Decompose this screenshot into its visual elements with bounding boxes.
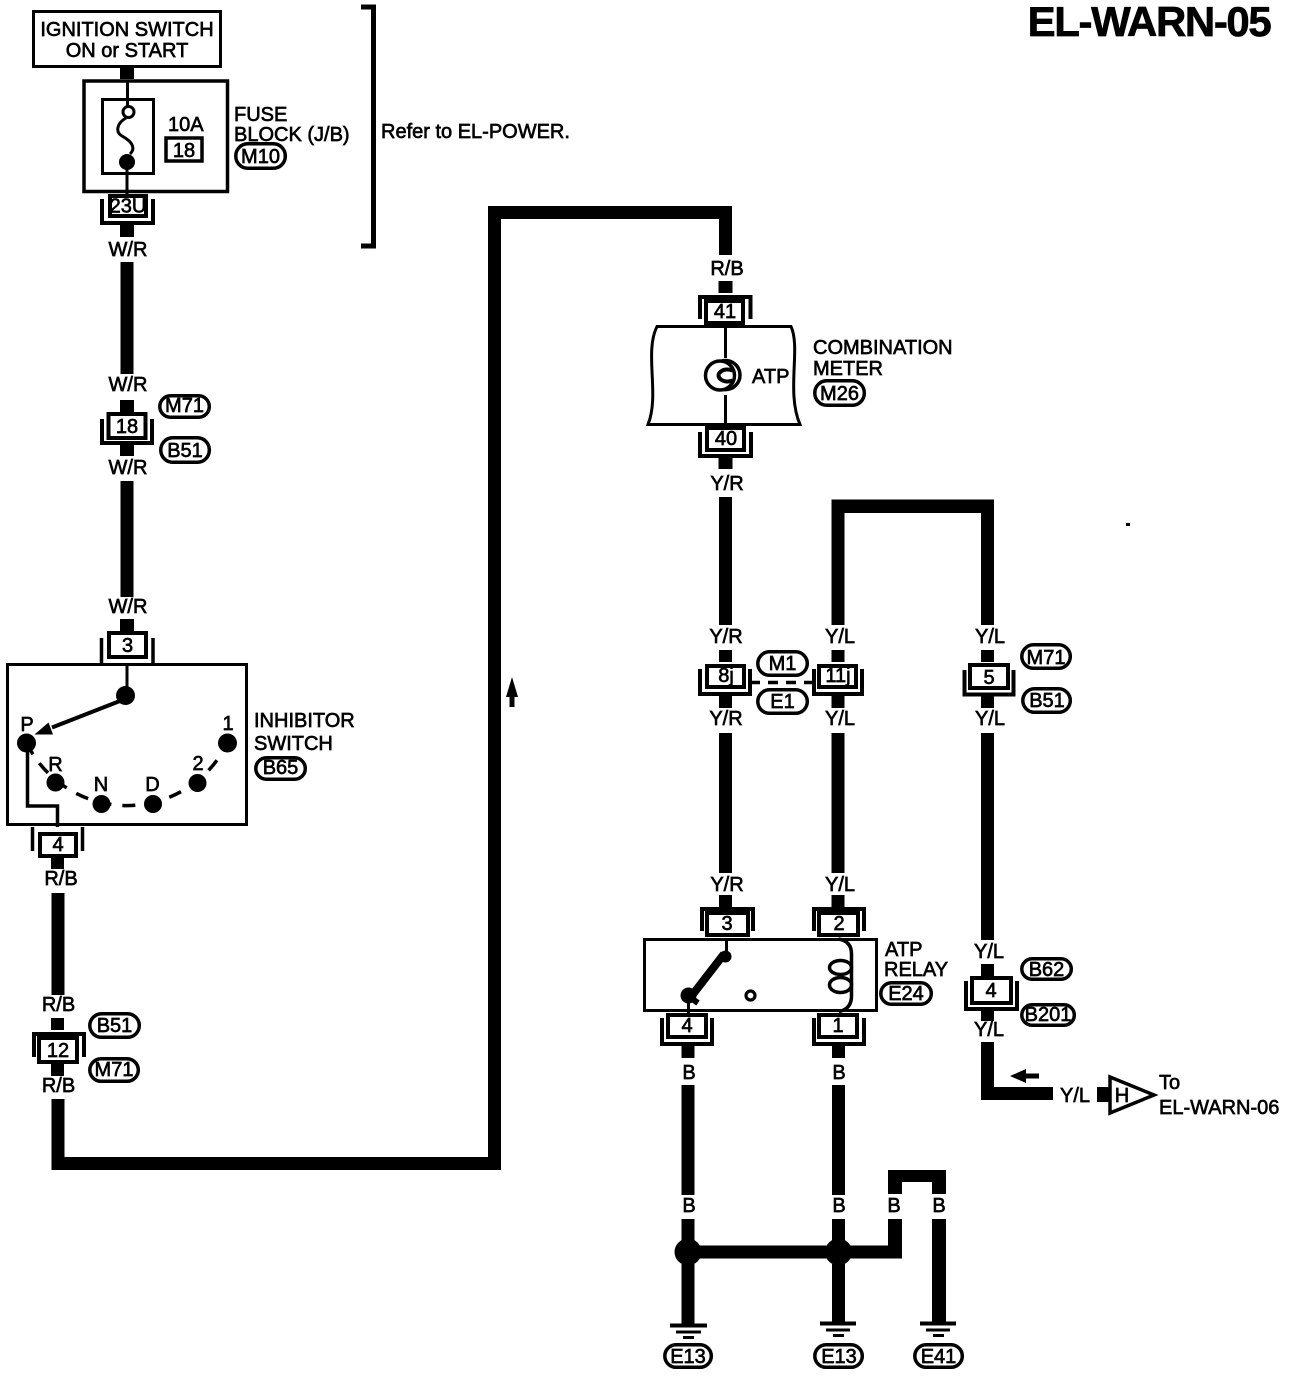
- svg-text:8j: 8j: [718, 665, 734, 687]
- svg-text:SWITCH: SWITCH: [254, 733, 333, 755]
- wire B to junction: [832, 1219, 845, 1246]
- svg-text:B: B: [932, 1195, 945, 1217]
- svg-text:FUSE: FUSE: [234, 104, 287, 126]
- svg-text:R: R: [48, 754, 62, 776]
- ATP relay box: [645, 940, 877, 1011]
- svg-text:B: B: [682, 1195, 695, 1217]
- svg-text:18: 18: [173, 140, 195, 162]
- connector label M1: [758, 652, 808, 676]
- connector 41 combination meter: [700, 281, 751, 323]
- svg-text:B51: B51: [97, 1015, 133, 1037]
- wire stub ignition to fuse block: [120, 68, 134, 79]
- wire B vertical: [682, 1085, 695, 1195]
- svg-text:B: B: [887, 1195, 900, 1217]
- svg-text:4: 4: [52, 834, 63, 856]
- connector 3 ATP relay: [702, 895, 753, 935]
- svg-text:Y/R: Y/R: [710, 473, 743, 495]
- svg-text:M71: M71: [1027, 647, 1066, 669]
- wire Y/L down corner to EL-WARN-06: [981, 1042, 994, 1100]
- connector 1 ATP relay: [814, 1015, 864, 1058]
- svg-text:Y/R: Y/R: [709, 626, 742, 648]
- connector 40 combination meter: [700, 428, 751, 469]
- junction node: [825, 1239, 852, 1266]
- wire Y/L vertical: [981, 733, 994, 940]
- wire direction arrow left: [1010, 1069, 1039, 1083]
- svg-text:Y/L: Y/L: [825, 626, 855, 648]
- svg-text:40: 40: [715, 428, 737, 450]
- svg-text:3: 3: [721, 913, 732, 935]
- svg-text:Y/L: Y/L: [974, 1019, 1004, 1041]
- combination meter labels M26: [813, 337, 953, 405]
- ground E13: [665, 1326, 712, 1369]
- svg-text:W/R: W/R: [109, 457, 148, 479]
- connector label B201: [1022, 1004, 1075, 1026]
- svg-text:METER: METER: [813, 358, 883, 380]
- svg-text:B: B: [832, 1195, 845, 1217]
- fuse block labels FUSE BLOCK (J/B) M10: [234, 104, 350, 168]
- svg-text:Y/R: Y/R: [710, 874, 743, 896]
- wire R/B down from connector 12: [52, 1099, 65, 1170]
- wire bridge over: [888, 1170, 946, 1194]
- Y/L top bar: [832, 500, 995, 514]
- wire bridge left leg lower: [888, 1219, 902, 1259]
- svg-text:R/B: R/B: [44, 868, 77, 890]
- svg-text:IGNITION SWITCH: IGNITION SWITCH: [40, 19, 213, 41]
- fuse 10A 18 symbol: [118, 81, 204, 194]
- svg-text:ATP: ATP: [885, 939, 922, 961]
- relay labels ATP RELAY E24: [881, 939, 948, 1005]
- svg-text:ON or START: ON or START: [66, 40, 189, 62]
- svg-text:E41: E41: [921, 1346, 957, 1368]
- wire R/B vertical: [52, 893, 65, 995]
- connector 5 M71/B51: [965, 650, 1014, 708]
- wire Y/R vertical: [719, 733, 732, 873]
- svg-text:2: 2: [192, 753, 203, 775]
- svg-text:4: 4: [681, 1015, 692, 1037]
- svg-text:H: H: [1115, 1085, 1129, 1107]
- svg-text:Y/L: Y/L: [825, 874, 855, 896]
- svg-text:Y/L: Y/L: [975, 708, 1005, 730]
- svg-text:B: B: [682, 1062, 695, 1084]
- svg-text:M10: M10: [241, 146, 280, 168]
- connector label B62: [1022, 959, 1072, 981]
- svg-text:COMBINATION: COMBINATION: [813, 337, 953, 359]
- ground E13: [815, 1324, 863, 1369]
- wire B vertical: [832, 1085, 845, 1195]
- svg-text:B201: B201: [1025, 1004, 1072, 1026]
- svg-text:EL-WARN-05: EL-WARN-05: [1028, 0, 1272, 45]
- svg-text:E13: E13: [670, 1346, 706, 1368]
- svg-text:W/R: W/R: [109, 374, 148, 396]
- wire B to junction: [682, 1219, 695, 1246]
- svg-text:Y/L: Y/L: [974, 941, 1004, 963]
- svg-text:18: 18: [116, 416, 138, 438]
- wire B to ground: [682, 1264, 695, 1324]
- svg-text:11j: 11j: [825, 665, 850, 687]
- svg-text:10A: 10A: [168, 114, 204, 136]
- connector 4 ATP relay: [662, 1015, 712, 1058]
- connector label M71: [160, 395, 210, 417]
- svg-text:INHIBITOR: INHIBITOR: [254, 710, 355, 732]
- svg-text:W/R: W/R: [109, 596, 148, 618]
- svg-text:1: 1: [832, 1015, 843, 1037]
- svg-text:B62: B62: [1029, 959, 1065, 981]
- svg-text:Y/L: Y/L: [975, 626, 1005, 648]
- svg-text:P: P: [20, 714, 33, 736]
- connector label E1: [758, 690, 808, 714]
- svg-text:23U: 23U: [110, 196, 147, 218]
- svg-text:B51: B51: [1029, 690, 1065, 712]
- svg-text:EL-WARN-06: EL-WARN-06: [1159, 1097, 1279, 1119]
- connector 18 M71/B51: [102, 400, 152, 456]
- svg-text:To: To: [1159, 1072, 1180, 1094]
- connector 2 ATP relay: [814, 895, 864, 935]
- junction node: [675, 1239, 702, 1266]
- svg-text:Y/L: Y/L: [825, 708, 855, 730]
- svg-text:Y/R: Y/R: [709, 708, 742, 730]
- svg-text:R/B: R/B: [710, 258, 743, 280]
- svg-text:E24: E24: [888, 983, 924, 1005]
- inhibitor switch internals: [17, 665, 237, 827]
- svg-text:3: 3: [122, 635, 133, 657]
- svg-text:M26: M26: [820, 383, 859, 405]
- connector label B51: [90, 1014, 140, 1038]
- wire junction to bridge: [839, 1246, 903, 1259]
- svg-text:M71: M71: [165, 395, 204, 417]
- fuse block M10 box: [84, 81, 228, 192]
- connector 11j: [814, 650, 862, 708]
- ATP lamp: [706, 325, 790, 424]
- refer-to bracket: [361, 7, 374, 246]
- wire long loop bottom horizontal: [52, 1157, 502, 1170]
- connector 4 B62/B201: [966, 964, 1017, 1021]
- connector 3 inhibitor switch: [102, 619, 154, 663]
- ground E41: [915, 1324, 963, 1369]
- svg-text:E13: E13: [821, 1346, 857, 1368]
- connector label B51: [161, 438, 210, 463]
- relay switch contact: [681, 939, 732, 1013]
- connector 8j M1/E1: [700, 650, 750, 708]
- svg-text:D: D: [145, 774, 159, 796]
- wire Y/R vertical: [719, 497, 732, 625]
- svg-text:B51: B51: [167, 440, 203, 462]
- scan speck: [1126, 523, 1130, 526]
- connector 12 B51/M71: [34, 1018, 84, 1076]
- svg-text:B: B: [832, 1062, 845, 1084]
- wire down to combination meter: [719, 206, 732, 255]
- connector label B51: [1023, 689, 1071, 713]
- ignition switch box: [34, 12, 221, 67]
- inhibitor switch labels: [254, 710, 355, 779]
- wire junction horizontal: [688, 1246, 839, 1259]
- svg-text:R/B: R/B: [42, 1075, 75, 1097]
- wire Y/L vertical: [832, 733, 845, 873]
- wire long loop top horizontal: [488, 206, 732, 219]
- svg-text:B65: B65: [263, 757, 299, 779]
- svg-text:M1: M1: [769, 653, 797, 675]
- harness junction dashed line: [750, 681, 812, 685]
- relay coil: [830, 939, 852, 1012]
- svg-text:Refer to EL-POWER.: Refer to EL-POWER.: [381, 121, 570, 143]
- svg-text:1: 1: [222, 713, 233, 735]
- connector 23U: [102, 196, 153, 238]
- svg-text:R/B: R/B: [42, 994, 75, 1016]
- svg-text:41: 41: [714, 301, 736, 323]
- page link H to EL-WARN-06: [1097, 1072, 1279, 1119]
- connector label M71: [90, 1059, 139, 1082]
- svg-text:2: 2: [833, 913, 844, 935]
- svg-text:W/R: W/R: [109, 239, 148, 261]
- wire bridge right leg to ground: [932, 1219, 946, 1322]
- svg-text:M71: M71: [95, 1059, 134, 1081]
- svg-text:Y/L: Y/L: [1060, 1085, 1090, 1107]
- wire long loop vertical: [488, 206, 501, 1170]
- connector label M71: [1022, 645, 1071, 669]
- wire B to ground: [832, 1264, 845, 1322]
- wire W/R vertical: [121, 481, 134, 597]
- svg-text:4: 4: [985, 980, 996, 1002]
- svg-text:N: N: [94, 774, 108, 796]
- combination meter box: [648, 327, 800, 425]
- svg-text:E1: E1: [770, 691, 794, 713]
- svg-text:RELAY: RELAY: [884, 959, 948, 981]
- Y/L right leg: [981, 500, 994, 626]
- svg-text:12: 12: [47, 1040, 69, 1062]
- wire direction arrow: [506, 677, 518, 707]
- Y/L left leg: [832, 500, 845, 626]
- connector 4 inhibitor switch: [33, 827, 83, 869]
- svg-text:5: 5: [983, 667, 994, 689]
- wire W/R vertical: [121, 262, 134, 374]
- inhibitor switch B65 box: [8, 665, 247, 825]
- relay NO contact circle: [746, 991, 755, 1000]
- svg-text:ATP: ATP: [752, 366, 789, 388]
